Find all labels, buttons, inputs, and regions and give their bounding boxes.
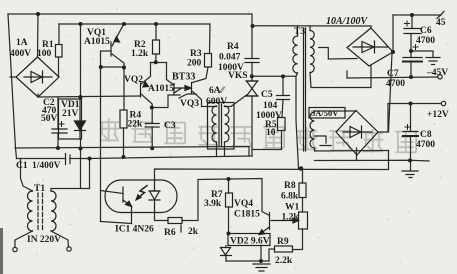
junction <box>150 146 154 150</box>
junction <box>299 166 304 171</box>
capacitor C4 0.047/1000V <box>245 59 259 63</box>
capacitor C8 <box>403 125 418 137</box>
svg-text:200: 200 <box>187 59 202 69</box>
terminal -45V <box>438 75 442 79</box>
svg-text:R3: R3 <box>190 49 202 59</box>
resistor R6 <box>180 225 182 232</box>
wire C1 left <box>17 158 66 160</box>
svg-text:T1: T1 <box>34 184 45 194</box>
svg-text:104: 104 <box>263 101 278 111</box>
transistor VQ2 <box>141 82 149 98</box>
potentiometer W1 <box>271 212 308 229</box>
wire VQ3 base link <box>152 95 180 108</box>
svg-text:W1: W1 <box>285 203 300 213</box>
transformer T1 <box>28 191 57 231</box>
transistor VQ4 <box>259 213 270 235</box>
transistor VQ3 <box>174 84 181 95</box>
zener VD1 <box>75 99 86 139</box>
wire R1 feed rail y24 <box>59 23 210 25</box>
resistor R8 <box>299 183 306 198</box>
wire R4a bottom to opto <box>123 128 125 157</box>
resistor R1 <box>56 45 63 58</box>
wire C2 stem top <box>57 97 59 129</box>
wire R9 left lead <box>269 249 275 261</box>
wire bridge2 plus up <box>392 15 394 52</box>
svg-text:21V: 21V <box>62 109 79 119</box>
svg-text:0.047: 0.047 <box>219 53 241 63</box>
junction <box>259 259 263 263</box>
wire C5 branch top <box>282 76 284 95</box>
wire VQ3 collector <box>167 63 175 86</box>
wire R1 top stub <box>58 24 60 44</box>
junction <box>409 49 413 53</box>
svg-text:4700: 4700 <box>416 140 435 150</box>
wire C6 stem <box>411 15 413 28</box>
VD1 box <box>59 99 82 139</box>
capacitor C6 <box>404 21 421 34</box>
ground G3 <box>253 264 270 271</box>
wire T1 right top <box>51 189 90 192</box>
wire triac gate <box>225 95 247 107</box>
svg-text:+12V: +12V <box>427 110 449 120</box>
svg-text:4700: 4700 <box>416 36 435 46</box>
svg-text:R8: R8 <box>284 181 296 191</box>
junction <box>408 158 412 162</box>
svg-text:45: 45 <box>436 18 446 28</box>
svg-text:50V: 50V <box>41 114 58 124</box>
svg-text:C3: C3 <box>164 121 176 131</box>
wire R7 bottom stub <box>228 207 230 234</box>
wire x252 cap to triac <box>251 63 253 82</box>
wire T1 left top lead <box>21 159 33 191</box>
svg-text:1/400V: 1/400V <box>32 161 61 171</box>
junction <box>409 75 413 79</box>
resistor R5 <box>278 118 286 131</box>
svg-text:C8: C8 <box>420 130 432 140</box>
wire T3 sec2 top to bridge3 <box>315 111 357 112</box>
unijunction BT33 <box>175 83 192 94</box>
wire T1 left bottom lead <box>15 231 33 247</box>
svg-text:VD2 9.6V: VD2 9.6V <box>230 237 270 247</box>
wire gnd mid rail <box>315 159 430 162</box>
wire C8 bottom <box>410 136 412 171</box>
wire LR rail LED anode feed <box>155 151 389 181</box>
watermark 杭州将睿科技有限公司 (faked CJK glyph blocks) <box>100 118 417 152</box>
terminal +45 <box>437 12 444 19</box>
transformer T3 secondary 1 <box>310 31 314 73</box>
wire C8 stem <box>410 104 412 132</box>
junction <box>88 157 92 161</box>
svg-text:400V: 400V <box>10 49 31 59</box>
bridge rectifier B3 3A/50V <box>336 111 378 156</box>
junction <box>250 74 254 78</box>
junction <box>79 22 83 26</box>
wire primary return to triac <box>252 75 296 77</box>
wire BT33 B1 to T2 <box>192 92 216 107</box>
svg-text:3.9k: 3.9k <box>204 199 222 209</box>
svg-text:A1015: A1015 <box>148 84 174 94</box>
wire VQ2 collector diag <box>141 94 152 108</box>
svg-text:2k: 2k <box>188 227 199 237</box>
capacitor C1 <box>66 154 71 165</box>
resistor R7 <box>226 193 233 207</box>
resistor R3 <box>205 54 212 68</box>
junction <box>122 155 126 159</box>
wire T2 right winding bottom <box>224 142 226 156</box>
junction <box>410 13 414 17</box>
wire R1 bottom to bridge right corner <box>58 57 60 77</box>
wire bridge2 to bridge3 vertical <box>389 53 393 132</box>
wire C1 to T1 column <box>89 159 91 189</box>
svg-text:1A: 1A <box>16 38 28 48</box>
wire T1 right bottom lead <box>51 231 69 247</box>
junction <box>56 146 60 150</box>
svg-text:10A/100V: 10A/100V <box>326 16 368 27</box>
capacitor C7 <box>403 45 422 62</box>
terminal T1 left <box>13 247 17 251</box>
junction <box>409 102 413 106</box>
resistor R4 22k <box>120 110 127 128</box>
svg-text:6.8k: 6.8k <box>281 192 299 202</box>
wire C2 stem bottom <box>57 133 59 148</box>
wire x82 VD1 column <box>80 24 82 98</box>
transistor VQ1 <box>111 37 120 57</box>
junction <box>36 12 40 16</box>
wire x82 below VD1 box to T1 area <box>80 139 82 188</box>
capacitor C2 <box>52 122 67 134</box>
wire C7 bottom <box>410 62 412 77</box>
svg-text:BT33: BT33 <box>172 72 195 83</box>
wire gnd branch <box>411 51 433 57</box>
wire bridge1 top feed <box>37 14 40 57</box>
wire T3 sec2 tap <box>315 136 327 143</box>
capacitor C5 <box>277 96 290 100</box>
svg-text:1.2k: 1.2k <box>282 213 300 223</box>
svg-text:6A⁄⁄: 6A⁄⁄ <box>209 86 226 96</box>
wire VQ3 emitter to BT33 <box>179 94 196 98</box>
wire C3 bottom <box>151 127 153 149</box>
svg-text:600V: 600V <box>206 97 227 107</box>
svg-text:10: 10 <box>266 128 276 138</box>
bridge rectifier B2 10A/100V <box>347 28 393 66</box>
ground tap T3 sec2 <box>320 145 331 147</box>
wire T3 sec2 bottom <box>315 148 389 151</box>
wire T3 sec1 bottom -45 rail <box>310 66 371 88</box>
wire C6 bottom to gnd node <box>410 34 412 57</box>
wire +12 rail <box>388 103 441 105</box>
svg-text:100: 100 <box>37 49 52 59</box>
junction <box>99 65 103 69</box>
wire bridge1 left stub <box>10 76 16 78</box>
wire x252 cap top <box>251 26 253 59</box>
wire R2 bottom <box>155 54 157 62</box>
bridge rectifier B1 1A/400V <box>16 57 59 97</box>
junction <box>391 50 395 54</box>
triac VKS <box>246 81 258 96</box>
junction <box>154 60 158 64</box>
wire bridge3 bottom stub <box>356 148 358 161</box>
resistor R9 <box>275 246 293 252</box>
wire R5 bottom return <box>252 131 282 150</box>
wire T3 primary bottom <box>296 73 299 169</box>
svg-text:4700: 4700 <box>386 79 405 89</box>
wire bridge3 plus <box>378 104 388 132</box>
wire y26 to T3 primary <box>252 25 371 27</box>
scan smudge bottom-left edge <box>0 228 3 274</box>
svg-text:1.2k: 1.2k <box>131 49 149 59</box>
wire R2 top <box>155 24 157 40</box>
junction <box>150 106 154 110</box>
wire VQ1 emitter diagonal <box>112 24 124 46</box>
wire C5 to R5 <box>282 100 283 118</box>
wire rail-M common <box>90 156 253 159</box>
svg-text:IC1 4N26: IC1 4N26 <box>115 225 154 235</box>
wire rail1 y148 <box>15 147 249 157</box>
junction <box>79 95 83 99</box>
wire VD2 node <box>260 246 262 262</box>
junction <box>281 74 285 78</box>
svg-text:A1015: A1015 <box>84 37 110 47</box>
junction <box>79 147 83 151</box>
svg-text:R4: R4 <box>227 42 239 52</box>
label box 3A/50V <box>309 108 345 119</box>
wire R8 to W1 <box>302 198 304 213</box>
wire C3 column <box>151 108 153 124</box>
wire top right rail <box>393 14 441 16</box>
svg-text:IN 220V: IN 220V <box>27 235 61 245</box>
wire -45V rail <box>347 71 438 78</box>
wire x252 triac bottom <box>251 96 253 156</box>
junction <box>154 22 158 26</box>
resistor R2 <box>153 40 160 54</box>
transformer T3 primary <box>293 26 306 151</box>
wire T2 left winding bottom <box>216 142 218 156</box>
svg-text:C7: C7 <box>387 69 399 79</box>
terminal +12V <box>441 101 445 105</box>
wire VD2 bottom <box>226 260 269 262</box>
wire y62 node <box>151 62 167 64</box>
wire top rail <box>8 14 252 26</box>
VD2 box <box>228 234 270 246</box>
transformer T3 secondary 2 <box>310 112 314 148</box>
junction <box>227 232 231 236</box>
transformer T2 windings <box>212 104 229 146</box>
junction <box>251 24 255 28</box>
wire R6 to R7 node <box>182 179 270 221</box>
svg-text:–45V: –45V <box>426 68 448 78</box>
wire LED cathode to R6 <box>155 212 169 221</box>
svg-text:C1: C1 <box>16 161 28 171</box>
transformer T2 pulse box <box>208 103 235 150</box>
ground G1 <box>426 58 440 65</box>
wire y67 link <box>101 66 125 68</box>
svg-text:C5: C5 <box>261 90 273 100</box>
wire R8 top stub <box>302 169 304 184</box>
svg-text:VKS: VKS <box>228 71 248 81</box>
svg-text:VQ2: VQ2 <box>124 75 143 85</box>
wire R3 top <box>209 24 212 54</box>
svg-text:R9: R9 <box>277 237 289 247</box>
svg-text:VQ3: VQ3 <box>180 99 199 109</box>
ground G2 <box>402 171 418 178</box>
svg-text:3A/50V: 3A/50V <box>311 108 339 118</box>
svg-text:VQ4: VQ4 <box>234 199 253 209</box>
svg-text:C1815: C1815 <box>234 210 260 220</box>
wire bridge bottom to VQ2 base y97 <box>38 94 140 97</box>
wire VQ2 emitter <box>141 63 151 85</box>
svg-text:T3: T3 <box>294 27 305 37</box>
capacitor C3 <box>145 124 159 128</box>
wire left border down to T1 <box>8 14 17 159</box>
wire R7 top stub <box>228 179 230 193</box>
junction <box>227 177 231 181</box>
wire T3 sec1 top to bridge <box>370 26 372 28</box>
junction <box>122 66 126 70</box>
wire BT33 B2 to R3 <box>192 67 208 83</box>
wire VQ1 collector column x124 <box>112 54 124 110</box>
terminal T1 right <box>67 247 71 251</box>
wire T3 sec1 center tap <box>319 48 357 60</box>
wire VQ1 base column x102 <box>101 51 112 222</box>
junction <box>122 22 126 26</box>
svg-text:R6: R6 <box>164 228 176 238</box>
zener VD2 <box>221 246 232 262</box>
svg-text:2.2k: 2.2k <box>275 256 293 266</box>
svg-text:C6: C6 <box>420 26 432 36</box>
svg-text:22k: 22k <box>128 120 144 130</box>
optocoupler IC1 4N26 <box>101 180 178 224</box>
wire R9 right lead <box>293 229 303 250</box>
wire C1 right <box>70 158 90 160</box>
